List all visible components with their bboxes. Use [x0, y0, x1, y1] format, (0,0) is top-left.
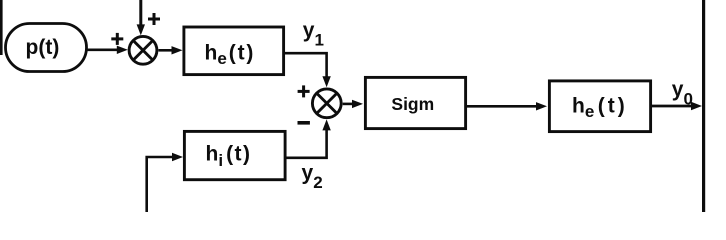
wire: external input from top into S1: [137, 0, 145, 35]
block he(t) #1: [184, 27, 284, 75]
block he(t) #2: [549, 81, 650, 132]
wire: feedback from bottom into hi: [147, 153, 183, 212]
wire hi to summer S2: [287, 119, 331, 157]
svg-text:Sigm: Sigm: [391, 94, 434, 114]
plus sign at S1 left input: [111, 33, 123, 45]
wire he1 to summer S2: [284, 53, 331, 87]
svg-text:he(t): he(t): [205, 41, 256, 68]
plus sign at S1 top input: [148, 13, 160, 25]
plus sign at S2 top input: [298, 85, 310, 97]
svg-text:he(t): he(t): [572, 94, 628, 121]
wire: left border segment: [0, 0, 3, 55]
minus sign at S2 bottom input: [298, 121, 310, 125]
wire he2 to output node: [652, 102, 702, 110]
summer S1: [129, 36, 157, 64]
wire p(t) to summer S1: [87, 46, 128, 54]
summer S2: [312, 89, 341, 118]
block hi(t): [184, 131, 285, 179]
node p(t) source: [6, 24, 87, 72]
wire Sigm to block he2: [467, 102, 547, 110]
wire summer S1 to block he1: [158, 46, 182, 54]
block Sigm U1: [365, 77, 465, 128]
wire: right border line: [702, 0, 705, 212]
svg-text:p(t): p(t): [26, 36, 60, 59]
wire summer S2 to block Sigm: [343, 100, 363, 108]
